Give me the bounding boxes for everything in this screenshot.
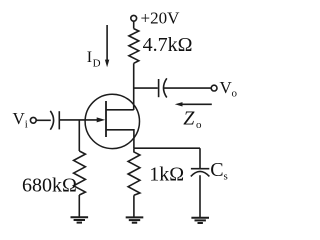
ground under Cs [191,218,209,223]
svg-text:V: V [13,109,26,128]
transistor Q1 source lead [106,130,134,148]
svg-text:i: i [25,119,28,131]
+20V supply terminal [131,15,137,28]
svg-text:D: D [93,58,101,70]
svg-text:s: s [224,171,228,183]
ground under RS [126,217,144,222]
svg-text:C: C [210,159,223,181]
label C_s [210,159,228,183]
wire: RG to ground [78,195,80,217]
resistor RD 4.7k [129,29,139,64]
svg-text:I: I [87,49,92,66]
transistor Q1 channel bar [105,101,107,137]
capacitor Cs [191,169,210,177]
svg-text:4.7kΩ: 4.7kΩ [143,34,193,56]
ground under RG [71,217,89,222]
svg-text:o: o [196,119,202,131]
input coupling capacitor [50,111,59,130]
node: output tap wire [134,87,158,89]
resistor RG 680k [74,151,86,195]
transistor Q1 circle [85,94,139,148]
svg-text:o: o [232,87,238,99]
label V_i [13,109,28,130]
wire: Cs to ground [199,175,201,217]
terminal Vo [211,85,217,91]
wire: RD to drain [133,63,135,110]
wire: source node horizontal to Cs branch [134,147,200,149]
arrow ID [105,25,109,67]
terminal Vi [30,117,36,123]
arrow Zo [175,102,212,106]
label Z_o [183,108,202,131]
svg-text:680kΩ: 680kΩ [22,174,77,196]
transistor Q1 drain lead [106,109,134,111]
wire: Vi to input capacitor [36,119,51,121]
wire: capacitor to Vo terminal [163,87,211,89]
transistor Q1 gate lead with arrow [59,117,105,122]
svg-text:1kΩ: 1kΩ [149,163,184,185]
label I_D [87,49,101,69]
wire: Cs top [199,148,201,168]
resistor RS 1k [128,148,140,195]
output coupling capacitor [159,78,167,97]
svg-text:+20V: +20V [141,8,181,27]
wire: RS to ground [133,195,135,216]
label V_o [220,78,238,99]
svg-text:Z: Z [183,108,195,130]
wire: gate node drop to RG [78,120,80,151]
